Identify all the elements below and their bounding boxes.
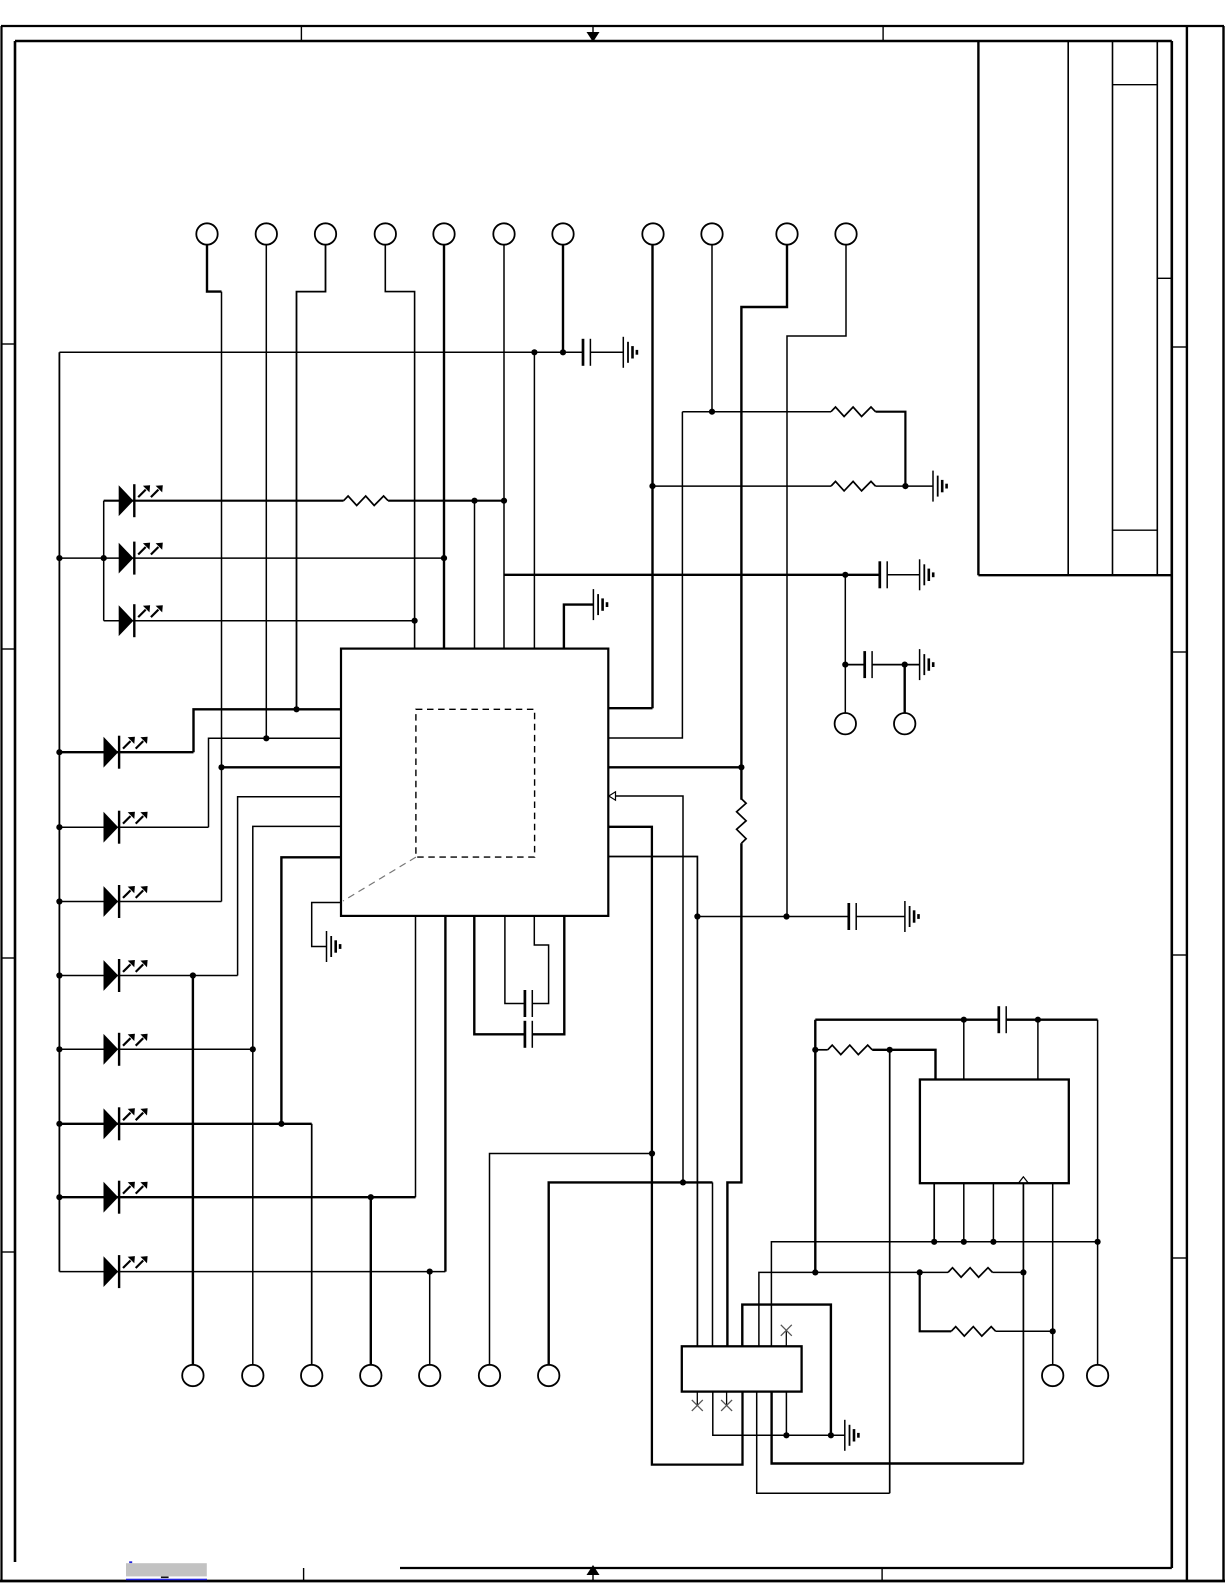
wire pin5 stem to U1 top [443, 245, 445, 649]
junction dot R4 x815 [812, 1047, 818, 1053]
capacitor C5 [999, 1006, 1006, 1033]
capacitor C2 [880, 561, 887, 588]
wire U2 bottom pin x1052 to R6 [1052, 1183, 1054, 1365]
junction dot R2 x905 [902, 483, 908, 489]
wire left riser x815 [814, 1020, 816, 1273]
wire pin9 stem to R1 [711, 245, 713, 412]
LED D8 [104, 1033, 148, 1066]
zone tick left 1 [2, 343, 16, 345]
wire U1 right pin y738 riser to R1 [608, 412, 682, 738]
connector pin J4-4 [360, 1365, 381, 1386]
wire D4 row [59, 751, 193, 753]
wire drop x712 to P1 [712, 1182, 714, 1346]
U2 input arrow bottom [1019, 1177, 1028, 1183]
sheet outer border left [0, 26, 2, 1581]
wire bottom circle6 row y1153 [490, 1154, 653, 1365]
resistor R4 [828, 1045, 873, 1055]
wire U1 right pin y708 [608, 707, 652, 709]
title block bottom edge [978, 574, 1171, 576]
connector pin J4-2 [242, 1365, 263, 1386]
LED D7 [104, 959, 148, 992]
wire pin10 stem jog [741, 245, 787, 768]
wire C1 to ground [590, 351, 623, 353]
U1 pad diagonal dashed [343, 857, 416, 901]
wire pin4 stem [385, 245, 414, 649]
capacitor C7 [525, 1021, 532, 1048]
zone tick left 3 [2, 957, 16, 959]
capacitor C4 [849, 903, 856, 930]
ground G6 [905, 901, 919, 932]
connector pin J1-1 [196, 223, 217, 244]
wire U2 top pin x1037 [1037, 1020, 1039, 1080]
junction dot rail x963 [961, 1017, 967, 1023]
junction dot pin767 x221 [218, 764, 224, 770]
wire R4 to U2 top pin [872, 1050, 935, 1080]
wire pin6 stem to U1 top [503, 245, 505, 649]
wire riser D7 to bottom pin1 [192, 976, 194, 1365]
wire riser x1023 U2 pin to rail [1022, 1183, 1024, 1463]
junction dot y916 x697 [694, 913, 700, 919]
no-connect stub P1 top [785, 1332, 787, 1347]
wire x830 riser to P1 top pin [742, 1305, 831, 1436]
wire riser D9 to bottom pin3 [311, 1124, 313, 1365]
junction dot bus D9 [56, 1121, 62, 1127]
junction dot R1 x712 [709, 409, 715, 415]
LED D1 [119, 484, 163, 517]
resistor R1 [831, 407, 876, 417]
wire rail right drop x1097 [1097, 1020, 1099, 1365]
junction dot bracket D2 [101, 555, 107, 561]
no-connect X mark bl [692, 1400, 703, 1411]
resistor R6 [951, 1327, 996, 1337]
junction dot bus D5 [56, 824, 62, 830]
junction dot R5 x815 [812, 1269, 818, 1275]
connector box P1 [682, 1346, 802, 1391]
sheet inner border left [14, 41, 17, 1562]
connector pin J1-9 [701, 223, 722, 244]
connector pin J4-3 [301, 1365, 322, 1386]
wire R6 row [920, 1272, 952, 1331]
wire D11 row [59, 1271, 445, 1273]
junction dot y1435 x830 [828, 1432, 834, 1438]
wire pin7 stem to VDD bus [562, 245, 564, 353]
wire P1 pin E to R5 row [759, 1272, 948, 1346]
wire C4 row y916 [697, 916, 905, 918]
sheet outer border bottom [0, 1580, 1225, 1583]
connector pin J1-7 [552, 223, 573, 244]
wire D2 row [59, 557, 444, 559]
wire riser x221 to LED6 row [221, 292, 223, 902]
junction dot R5 x1023 [1020, 1269, 1026, 1275]
zone tick right 2 [1172, 651, 1187, 653]
wire U1 right pin y767 [608, 766, 741, 768]
sheet inner border bottom [400, 1567, 1172, 1569]
wire riser x252 U1 pin y826 to bottom pin2 [253, 826, 341, 1364]
connector pin J3-1 [1042, 1365, 1063, 1386]
wire D3 row [104, 620, 415, 622]
sheet inner border top [15, 40, 1172, 43]
wire U2 bottom pin x934 [933, 1183, 935, 1242]
junction dot D8 x252 [250, 1046, 256, 1052]
connector pin J2-1 [835, 713, 856, 734]
wire D9 row [59, 1123, 311, 1125]
no-connect stub P1 bottom mid [726, 1392, 728, 1405]
connector pin J4-7 [538, 1365, 559, 1386]
U1 exposed pad dashed [416, 709, 535, 857]
wire U1 bottom pin x534 to C6 [532, 916, 548, 1004]
wire R5 right [993, 1271, 1024, 1273]
junction dot bus D2 [56, 555, 62, 561]
wire riser x415 to U1 bottom [415, 916, 417, 1197]
junction dot y1241 x963 [961, 1239, 967, 1245]
connector pin J4-1 [182, 1365, 203, 1386]
junction dot y1435 x786 [783, 1432, 789, 1438]
title block divider 2 [1112, 40, 1114, 575]
wire LED anode bus vertical [58, 352, 60, 1271]
capacitor C6 [525, 990, 532, 1017]
sheet alignment arrow top [587, 26, 600, 42]
wire R2 row [653, 485, 832, 487]
connector pin J3-2 [1087, 1365, 1108, 1386]
zone tick right 1 [1172, 346, 1187, 348]
wire C2 to ground [887, 574, 919, 576]
ground G3 [920, 559, 934, 590]
wire R2 to ground [876, 485, 934, 487]
op IC U1 body [341, 649, 608, 916]
wire VDD2 bus y574 [504, 574, 880, 576]
wire x904 to pin [904, 665, 906, 713]
connector pin J1-8 [642, 223, 663, 244]
ground G8 [845, 1420, 859, 1451]
junction dot x904 y664 [902, 662, 908, 668]
LED D11 [104, 1255, 148, 1288]
sheet outer border right [1222, 26, 1224, 1581]
junction dot bus D4 [56, 749, 62, 755]
wire riser x474 to U1 top [474, 501, 476, 649]
no-connect stub P1 bottom left [696, 1392, 698, 1405]
wire riser x445 to U1 bottom [444, 916, 446, 1272]
junction dot y1241 x934 [931, 1239, 937, 1245]
wire VDD bus horizontal [59, 351, 583, 353]
junction dot D3 x414 [412, 618, 418, 624]
connector pin J1-2 [256, 223, 277, 244]
sheet alignment arrow bottom [587, 1565, 600, 1581]
wire riser D11 to bottom pin5 [429, 1272, 431, 1365]
wire pin1 stem [207, 245, 222, 292]
connector pin J4-5 [419, 1365, 440, 1386]
junction dot R4 x889 [887, 1047, 893, 1053]
capacitor C3 [865, 651, 872, 678]
junction dot y1241 x993 [990, 1239, 996, 1245]
wire P1 pin x786 drop [785, 1392, 787, 1436]
wire C3 row [845, 664, 919, 666]
ground G4 [593, 589, 607, 620]
ground G1 [623, 337, 637, 368]
connector pin J1-5 [433, 223, 454, 244]
title block cell line C [1157, 277, 1172, 279]
title block cell line A [1113, 84, 1158, 86]
wire top rail y1019 [815, 1019, 1097, 1021]
wire D6 row [59, 901, 221, 903]
junction dot pin767 x741 [738, 764, 744, 770]
wire pin3 stem [297, 245, 326, 710]
title block divider 3 [1156, 40, 1158, 575]
wire R6 right [996, 1330, 1053, 1332]
junction dot bus D7 [56, 972, 62, 978]
wire D10 row [59, 1196, 415, 1198]
junction dot D1 row x504 [501, 498, 507, 504]
wire U1 bottom pin x474 cap loop [474, 916, 564, 1034]
ground stub U1 left bottom [312, 903, 341, 947]
zone tick left 4 [2, 1251, 16, 1253]
LED D2 [119, 542, 163, 575]
zone tick left 2 [2, 648, 16, 650]
zone tick bottom 1 [303, 1568, 305, 1581]
junction dot rail x1037 [1035, 1017, 1041, 1023]
wire R3 lower to jog [727, 843, 741, 1346]
wire D8 row [59, 1048, 252, 1050]
connector pin J1-3 [315, 223, 336, 244]
junction dot bus D6 [56, 898, 62, 904]
zone tick bottom 2 [881, 1568, 883, 1581]
wire riser x889 down [889, 1050, 891, 1493]
connector pin J1-10 [776, 223, 797, 244]
zone tick top 2 [882, 26, 884, 41]
junction dot bus574 x845 [842, 572, 848, 578]
junction dot R5 x919 [917, 1269, 923, 1275]
zone tick right 3 [1172, 954, 1187, 956]
junction dot x845 y664 [842, 662, 848, 668]
junction dot y1182 x683 [680, 1179, 686, 1185]
connector pin J2-2 [894, 713, 915, 734]
wire P1 pin to gnd row [713, 1392, 845, 1436]
junction dot y1153 x652 [649, 1150, 655, 1156]
resistor R2 [831, 481, 876, 491]
wire riser D7 to U1 pin y797 [238, 797, 341, 976]
wire riser D10 to bottom pin4 [370, 1197, 372, 1365]
junction dot pin738 x266 [263, 735, 269, 741]
connector pin J1-6 [493, 223, 514, 244]
wire riser x281 to U1 pin y857 [281, 857, 341, 1124]
junction dot bus x534 [531, 349, 537, 355]
sheet inner border right [1171, 41, 1174, 1568]
junction dot bus D10 [56, 1194, 62, 1200]
no-connect X mark top [781, 1325, 792, 1336]
wire R1 row left [682, 411, 831, 413]
wire P1 pin F to row1241 [771, 1242, 1097, 1347]
junction dot D10 x370 [368, 1194, 374, 1200]
wire pin2 stem to U1 pin [265, 245, 267, 739]
logo block [126, 1561, 207, 1580]
wire U2 top pin x963 [963, 1020, 965, 1080]
oscillator U2 body [920, 1080, 1069, 1184]
wire pin8 stem to U1 right pin [651, 245, 653, 709]
wire U1 right pin y856 drop [608, 857, 697, 1347]
junction dot bus D8 [56, 1046, 62, 1052]
title block left edge [977, 40, 979, 575]
wire R4 row left [815, 1049, 827, 1051]
wire LED group bracket [103, 501, 105, 621]
junction dot pin709 x296 [293, 706, 299, 712]
ground G7 [327, 931, 341, 962]
resistor R7 [344, 496, 389, 506]
junction dot D2 x444 [441, 555, 447, 561]
LED D5 [104, 811, 148, 844]
sheet outer border top [1, 25, 1224, 27]
connector pin J1-11 [835, 223, 856, 244]
junction dot D7 x192 [190, 972, 196, 978]
LED D6 [104, 885, 148, 918]
wire riser D4 to U1 pin y709 [194, 709, 342, 752]
LED D10 [104, 1181, 148, 1214]
junction dot y1241 x1097 [1095, 1239, 1101, 1245]
capacitor C1 [583, 339, 590, 366]
wire bottom circle7 row y1182 [549, 1182, 713, 1364]
resistor R5 [948, 1268, 993, 1278]
LED D3 [119, 604, 163, 637]
zone tick right 4 [1172, 1257, 1187, 1259]
title block divider 1 [1067, 40, 1069, 575]
junction dot y916 x786 [783, 913, 789, 919]
wire U1 bottom pin x504 to C6 [505, 916, 525, 1004]
sheet margin line right [1186, 26, 1188, 1581]
LED D4 [104, 736, 148, 769]
no-connect X mark bm [721, 1400, 732, 1411]
ground G2 [933, 471, 947, 502]
junction dot R6 x1052 [1050, 1328, 1056, 1334]
wire P1 pin x756 loop to x889 [757, 1392, 890, 1494]
ground G5 [920, 649, 934, 680]
U1 input arrow right pin y796 [609, 792, 616, 800]
wire U1 right pin y826 long drop [608, 827, 742, 1465]
wire junction to R3 top [740, 767, 742, 799]
junction dot R2 x652 [649, 483, 655, 489]
wire D5 row [59, 826, 208, 828]
wire U1 left pin y738 [209, 738, 342, 827]
zone tick top 1 [300, 26, 302, 41]
wire P1 pin x771 to bottom rail [772, 1392, 1024, 1464]
connector pin J4-6 [479, 1365, 500, 1386]
wire D1 row with R7 [104, 500, 504, 502]
wire U2 bottom pin x993 [992, 1183, 994, 1242]
junction dot D1 row x474 [471, 498, 477, 504]
junction dot D11 x429 [427, 1269, 433, 1275]
wire U1 arrow pin y796 drop [616, 796, 684, 1182]
wire U2 bottom pin x963 [963, 1183, 965, 1242]
resistor R3 vertical [737, 799, 747, 844]
junction dot D9 x281 [278, 1121, 284, 1127]
title block cell line B [1113, 529, 1158, 531]
LED D9 [104, 1107, 148, 1140]
ground stub U1 top x563 [564, 605, 594, 649]
junction dot bus x563 [560, 349, 566, 355]
wire riser x534 to U1 top [533, 352, 535, 648]
wire R1 right corner down [876, 412, 906, 486]
wire D7 row [59, 975, 237, 977]
wire riser x845 to pin [844, 575, 846, 713]
connector pin J1-4 [375, 223, 396, 244]
wire U1 left pin y767 [222, 766, 342, 768]
wire pin11 stem jog [787, 245, 846, 917]
